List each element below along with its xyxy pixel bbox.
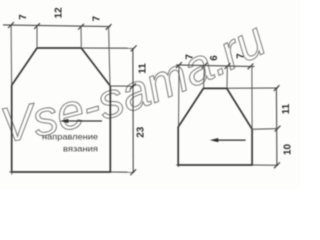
left piece corner overshoot [9, 171, 12, 174]
top dimension line left piece [3, 25, 111, 27]
tick [176, 62, 182, 68]
tick [130, 169, 136, 175]
top dimension line right piece [176, 65, 255, 67]
svg-text:направление: направление [42, 133, 98, 142]
right piece corner overshoot [176, 164, 179, 167]
tick [34, 23, 40, 29]
left piece top edge (neck 12) [37, 47, 81, 49]
left piece outline [12, 48, 111, 172]
bottom edge extension line [110, 171, 134, 173]
svg-text:вязания: вязания [63, 144, 98, 154]
svg-text:11: 11 [281, 103, 292, 114]
svg-text:23: 23 [136, 126, 147, 137]
right dimension line of left piece [132, 48, 134, 172]
extension line x=37 [36, 26, 38, 48]
extension line x=227.5 [226, 66, 228, 88]
extension line x=252 [251, 66, 253, 129]
arrowhead left piece [60, 119, 69, 123]
tick [8, 22, 14, 28]
svg-text:7: 7 [184, 54, 195, 60]
tick [248, 64, 254, 70]
right dimension line of right piece [275, 88, 278, 165]
extension line x=179 [178, 65, 181, 126]
tick [274, 162, 280, 168]
right piece bottom extension [252, 164, 278, 166]
arrow in left piece [65, 120, 102, 122]
tick [78, 24, 84, 30]
extension line x=108.6 [109, 27, 110, 86]
tick [274, 85, 280, 91]
arrowhead right piece [210, 138, 219, 142]
svg-text:7: 7 [18, 14, 29, 20]
top edge extension line to dimension 11 [81, 47, 134, 49]
svg-text:11: 11 [138, 63, 149, 74]
svg-text:6: 6 [209, 55, 220, 61]
armhole corner extension line [110, 85, 134, 87]
svg-text:7: 7 [91, 15, 102, 21]
right piece outline [178, 88, 252, 165]
tick [106, 24, 112, 30]
extension line x=204.5 [203, 66, 206, 89]
arrow in right piece [215, 139, 246, 141]
tick [130, 83, 136, 89]
svg-text:7: 7 [235, 53, 246, 59]
extension line x=11 [10, 25, 13, 85]
extension line x=81 [80, 26, 82, 48]
svg-text:12: 12 [54, 7, 65, 18]
right piece mid extension [252, 128, 278, 131]
tick [131, 45, 137, 51]
tick [225, 63, 231, 69]
tick [275, 126, 281, 132]
right piece top edge extension [227, 87, 278, 89]
svg-text:10: 10 [282, 144, 293, 155]
tick [202, 63, 208, 69]
watermark Vse-sama.ru [4, 47, 275, 143]
